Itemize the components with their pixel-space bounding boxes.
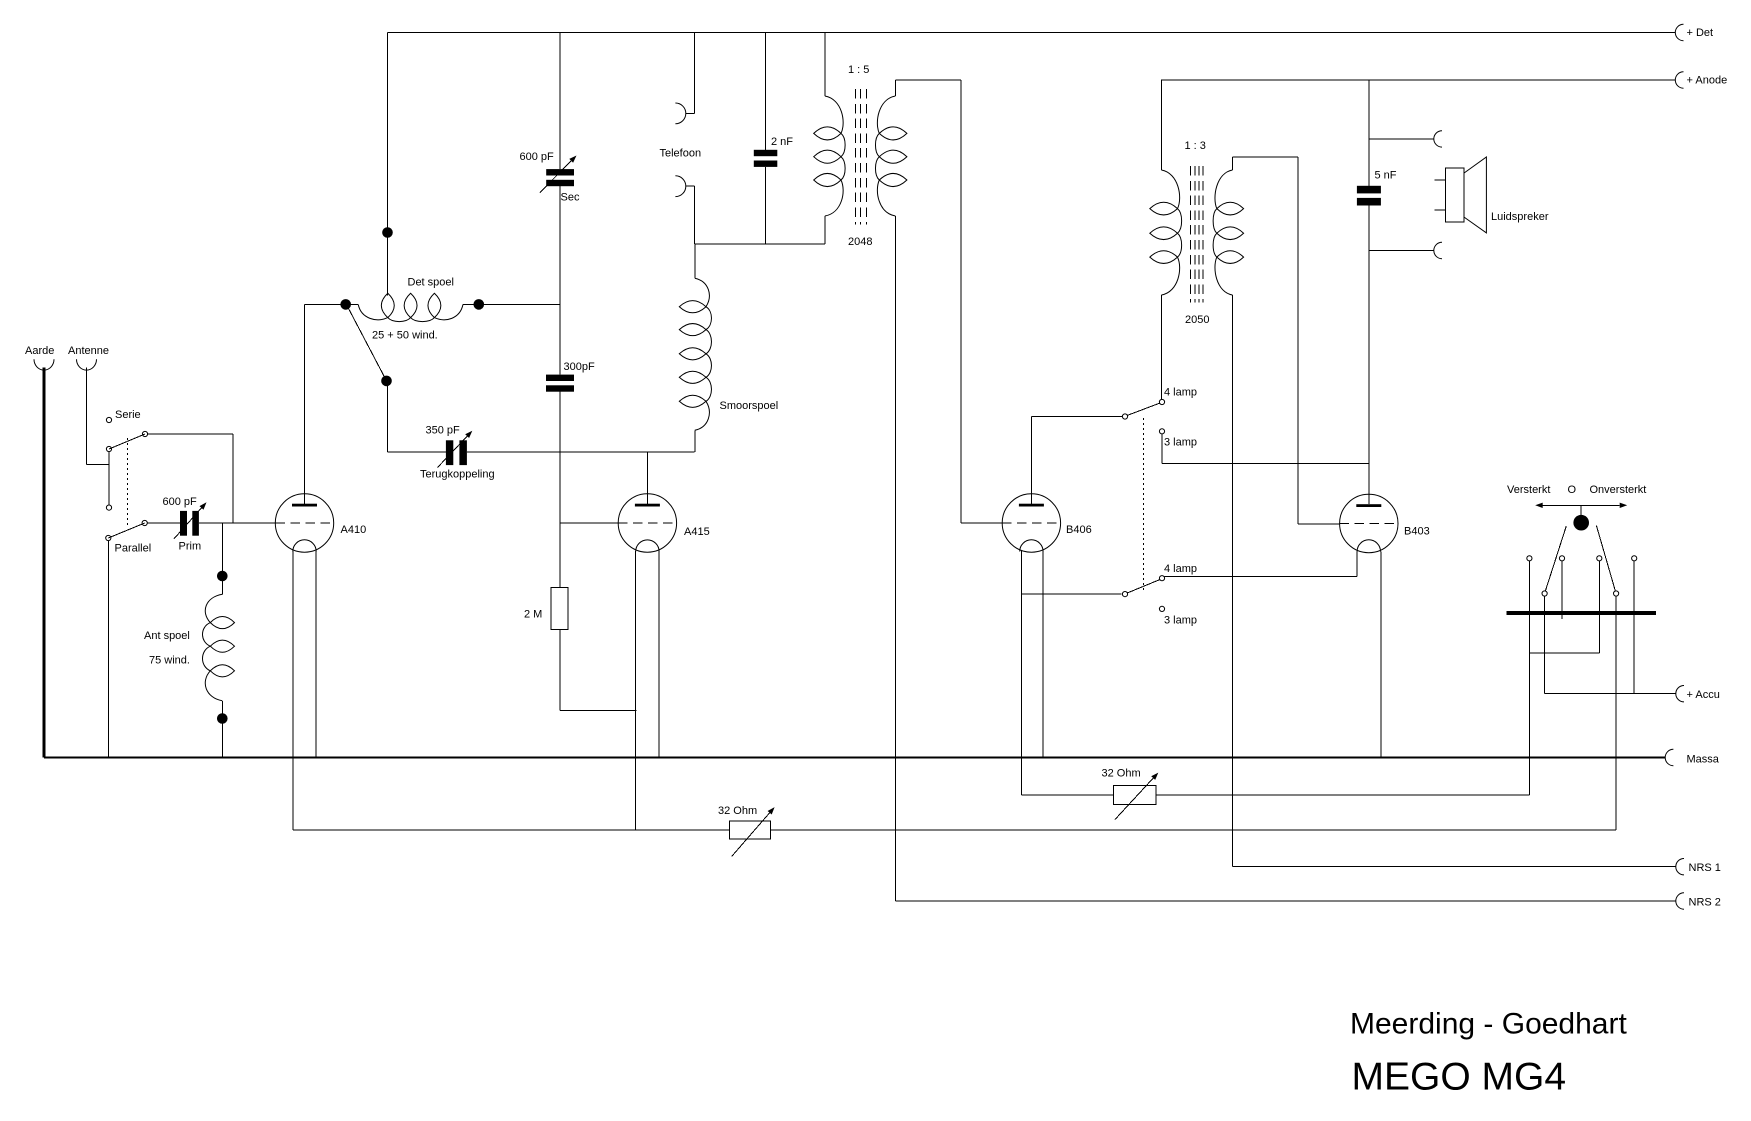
svg-text:3 lamp: 3 lamp	[1164, 437, 1197, 449]
svg-text:25 + 50 wind.: 25 + 50 wind.	[372, 330, 438, 342]
svg-text:Ant spoel: Ant spoel	[144, 630, 190, 642]
svg-text:2050: 2050	[1185, 314, 1209, 326]
svg-text:2 M: 2 M	[524, 609, 542, 621]
svg-text:B406: B406	[1066, 524, 1092, 536]
svg-text:300pF: 300pF	[564, 361, 595, 373]
svg-text:+ Accu: + Accu	[1687, 689, 1720, 701]
svg-text:Prim: Prim	[179, 541, 202, 553]
svg-text:MEGO MG4: MEGO MG4	[1352, 1056, 1567, 1099]
svg-text:NRS 2: NRS 2	[1689, 897, 1721, 909]
svg-text:A410: A410	[341, 524, 367, 536]
svg-text:4 lamp: 4 lamp	[1164, 387, 1197, 399]
svg-text:600 pF: 600 pF	[520, 151, 555, 163]
svg-text:5 nF: 5 nF	[1375, 170, 1397, 182]
svg-text:Massa: Massa	[1687, 754, 1720, 766]
svg-text:Sec: Sec	[561, 192, 580, 204]
svg-text:Parallel: Parallel	[115, 543, 152, 555]
svg-text:Meerding - Goedhart: Meerding - Goedhart	[1350, 1008, 1627, 1041]
svg-text:75 wind.: 75 wind.	[149, 655, 190, 667]
svg-text:NRS 1: NRS 1	[1689, 862, 1721, 874]
svg-text:Versterkt: Versterkt	[1507, 484, 1550, 496]
svg-text:32 Ohm: 32 Ohm	[718, 805, 757, 817]
svg-text:2048: 2048	[848, 236, 872, 248]
svg-text:Luidspreker: Luidspreker	[1491, 211, 1549, 223]
svg-text:Telefoon: Telefoon	[660, 148, 702, 160]
svg-text:3 lamp: 3 lamp	[1164, 615, 1197, 627]
svg-text:A415: A415	[684, 526, 710, 538]
svg-text:Aarde: Aarde	[25, 345, 54, 357]
svg-text:+ Anode: + Anode	[1687, 75, 1728, 87]
svg-text:Antenne: Antenne	[68, 345, 109, 357]
svg-text:Onversterkt: Onversterkt	[1590, 484, 1647, 496]
svg-text:600 pF: 600 pF	[163, 496, 198, 508]
svg-text:+ Det: + Det	[1687, 27, 1714, 39]
svg-text:O: O	[1568, 484, 1577, 496]
svg-text:1 : 3: 1 : 3	[1185, 140, 1206, 152]
svg-text:Serie: Serie	[115, 409, 141, 421]
svg-text:Terugkoppeling: Terugkoppeling	[420, 469, 495, 481]
svg-text:2 nF: 2 nF	[771, 136, 793, 148]
svg-text:1 : 5: 1 : 5	[848, 64, 869, 76]
svg-text:Smoorspoel: Smoorspoel	[720, 400, 779, 412]
svg-text:32 Ohm: 32 Ohm	[1102, 768, 1141, 780]
svg-text:4 lamp: 4 lamp	[1164, 563, 1197, 575]
svg-text:350 pF: 350 pF	[426, 425, 461, 437]
svg-text:Det spoel: Det spoel	[408, 277, 454, 289]
svg-text:B403: B403	[1404, 526, 1430, 538]
